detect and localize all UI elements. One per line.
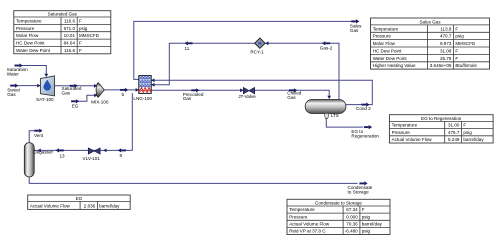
wire Precooled Gas (LNG-100 to JT-Valve): [151, 89, 243, 91]
svg-text:Gas: Gas: [7, 92, 16, 97]
svg-text:LNG-100: LNG-100: [133, 96, 152, 101]
arrow Gas-2: [322, 41, 330, 45]
svg-text:F: F: [455, 49, 458, 54]
svg-text:barrel/day: barrel/day: [99, 204, 120, 209]
svg-text:25.79: 25.79: [440, 56, 452, 61]
svg-text:MMSCFD: MMSCFD: [79, 33, 100, 38]
label LNG-100: [133, 96, 152, 101]
svg-text:2.036: 2.036: [84, 204, 96, 209]
valve VLV-101: [88, 148, 100, 154]
label VLV-101: [83, 156, 101, 161]
svg-text:psig: psig: [455, 34, 464, 39]
svg-text:HC Dew Point: HC Dew Point: [16, 41, 45, 46]
svg-text:9.973: 9.973: [440, 41, 452, 46]
svg-text:5.249: 5.249: [448, 137, 460, 142]
svg-text:116.6: 116.6: [64, 48, 76, 53]
table Condensate to Storage: [287, 199, 390, 234]
label Condensate to Storage: [348, 185, 373, 194]
wire Cond 2 (LTS liquid to LNG-100): [151, 80, 372, 104]
svg-text:RCY-1: RCY-1: [250, 50, 264, 55]
wire Saturated Gas (SAT-100 to MIX-100): [54, 85, 97, 87]
svg-text:MIX-100: MIX-100: [91, 99, 109, 104]
svg-text:8: 8: [120, 153, 123, 158]
label Saturated Gas: [62, 86, 82, 95]
arrow Condensate to Storage: [359, 181, 367, 185]
vessel Degasser: [24, 143, 34, 177]
label Saturation Water: [7, 67, 28, 76]
svg-text:Actual Volume Flow: Actual Volume Flow: [30, 204, 71, 209]
wire EG feed to MIX-100: [78, 95, 97, 101]
svg-text:-6.480: -6.480: [345, 229, 358, 234]
svg-text:84.64: 84.64: [64, 41, 76, 46]
label Gas-2: [320, 45, 333, 50]
arrow stream 11: [184, 41, 192, 45]
svg-text:MMSCFD: MMSCFD: [455, 41, 476, 46]
svg-text:psig: psig: [463, 130, 472, 135]
wire Vent (Degasser top): [29, 131, 37, 143]
svg-text:to Storage: to Storage: [348, 190, 370, 195]
svg-text:Gas: Gas: [287, 95, 296, 100]
label Precooled Gas: [183, 92, 204, 101]
arrow Precooled Gas: [191, 88, 199, 92]
arrow stream 5: [120, 88, 128, 92]
svg-text:31.00: 31.00: [448, 123, 460, 128]
separator LTS: [305, 100, 346, 119]
arrow Vent: [34, 129, 42, 133]
svg-text:LTS: LTS: [331, 113, 339, 118]
table EG to Regeneration: [389, 115, 493, 143]
svg-text:Btu/lbmole: Btu/lbmole: [455, 63, 477, 68]
svg-text:11: 11: [185, 46, 190, 51]
label stream 8: [120, 153, 123, 158]
label EG to Regeneration: [351, 129, 379, 138]
wire Sales Gas (LNG-100 top-left outlet to top-right): [134, 21, 352, 79]
table Saturated Gas: [14, 11, 111, 54]
svg-text:70.36: 70.36: [346, 222, 358, 227]
svg-text:Saturated Gas: Saturated Gas: [48, 11, 78, 16]
label JT-Valve: [238, 94, 256, 99]
arrow Saturated Gas: [70, 84, 78, 88]
svg-text:psig: psig: [362, 214, 371, 219]
svg-text:671.0: 671.0: [64, 26, 76, 31]
svg-text:Molar Flow: Molar Flow: [16, 33, 39, 38]
svg-text:Temperature: Temperature: [16, 19, 42, 24]
svg-text:Water Dew Point: Water Dew Point: [16, 48, 51, 53]
valve JT-Valve: [243, 88, 254, 94]
arrow EG to Regeneration: [364, 125, 372, 129]
label stream 13: [60, 153, 66, 158]
svg-text:Temperature: Temperature: [373, 26, 399, 31]
wire Saturation Water feed: [22, 66, 47, 75]
arrow Sales Gas: [351, 19, 359, 23]
label RCY-1: [250, 50, 264, 55]
svg-text:470.7: 470.7: [440, 34, 452, 39]
svg-text:Higher Heating Value: Higher Heating Value: [373, 63, 416, 68]
svg-text:Sales Gas: Sales Gas: [420, 19, 442, 24]
svg-text:F: F: [362, 207, 365, 212]
label Sales Gas: [350, 24, 362, 33]
svg-text:Pressure: Pressure: [373, 34, 392, 39]
svg-text:psig: psig: [362, 229, 371, 234]
svg-text:Temperature: Temperature: [392, 123, 418, 128]
svg-text:3.646e+05: 3.646e+05: [430, 63, 452, 68]
svg-text:Gas-2: Gas-2: [320, 45, 333, 50]
saturator SAT-100: [40, 76, 54, 96]
label stream 11: [185, 46, 190, 51]
svg-text:Pressure: Pressure: [392, 130, 411, 135]
label Cond 2: [356, 106, 371, 111]
svg-text:Gas: Gas: [183, 96, 192, 101]
arrow Saturation Water feed: [15, 63, 23, 67]
arrow EG feed: [71, 99, 79, 103]
svg-text:5: 5: [122, 92, 125, 97]
svg-text:SAT-100: SAT-100: [36, 97, 54, 102]
label Degasser: [33, 149, 53, 154]
svg-text:116.6: 116.6: [64, 19, 76, 24]
svg-text:Regeneration: Regeneration: [351, 134, 379, 139]
svg-text:F: F: [455, 26, 458, 31]
svg-text:barrel/day: barrel/day: [362, 222, 383, 227]
label MIX-100: [91, 99, 109, 104]
wire Condensate to Storage (Degasser bottom): [29, 177, 357, 184]
label LTS: [331, 113, 339, 118]
svg-text:Water Dew Point: Water Dew Point: [373, 56, 408, 61]
svg-text:VLV-101: VLV-101: [83, 156, 101, 161]
table EG: [28, 195, 131, 209]
wire Gas-2 (LTS vapour to RCY-1): [265, 43, 339, 99]
wire EG to Regeneration (LTS boot): [326, 118, 363, 127]
svg-text:113.8: 113.8: [440, 26, 452, 31]
svg-text:EG: EG: [76, 196, 83, 201]
svg-text:R: R: [258, 41, 262, 47]
wire stream 11 (RCY-1 to LNG-100 cold inlet): [151, 43, 255, 85]
svg-text:barrel/day: barrel/day: [463, 137, 484, 142]
svg-text:Actual Volume Flow: Actual Volume Flow: [392, 137, 433, 142]
svg-text:67.34: 67.34: [346, 207, 358, 212]
svg-text:31.08: 31.08: [440, 49, 452, 54]
arrow stream 8: [118, 148, 126, 152]
label SAT-100: [36, 97, 54, 102]
svg-text:Molar Flow: Molar Flow: [373, 41, 396, 46]
svg-text:Pressure: Pressure: [289, 214, 308, 219]
svg-text:Vent: Vent: [34, 133, 44, 138]
mixer MIX-100: [96, 83, 104, 97]
wire stream 8/13 (LNG-100 bottom outlet to Degasser): [34, 93, 132, 150]
table Sales Gas: [371, 18, 490, 69]
wire Chilled Gas (JT-Valve to LTS): [255, 90, 329, 97]
svg-text:Gas: Gas: [62, 90, 71, 95]
svg-text:F: F: [79, 19, 82, 24]
wire Sweet Gas feed: [18, 85, 41, 87]
svg-text:Reid VP at 37.8 C: Reid VP at 37.8 C: [289, 229, 326, 234]
svg-text:EG to Regeneration: EG to Regeneration: [421, 116, 462, 121]
svg-text:psig: psig: [79, 26, 88, 31]
svg-text:EG: EG: [72, 103, 79, 108]
svg-text:HC Dew Point: HC Dew Point: [373, 49, 402, 54]
arrow Cond 2: [361, 103, 369, 107]
svg-text:0.000: 0.000: [346, 214, 358, 219]
svg-text:F: F: [79, 41, 82, 46]
heat-exchanger LNG-100: [139, 76, 151, 94]
label Chilled Gas: [287, 91, 301, 100]
svg-text:Pressure: Pressure: [16, 26, 35, 31]
svg-text:Temperature: Temperature: [289, 207, 315, 212]
svg-text:JT-Valve: JT-Valve: [238, 94, 256, 99]
recycle RCY-1: [255, 38, 265, 48]
svg-text:13: 13: [60, 153, 66, 158]
wire stream 5 (MIX-100 to LNG-100): [104, 89, 139, 91]
svg-text:Condensate to Storage: Condensate to Storage: [315, 200, 362, 205]
label Sweet Gas: [7, 88, 20, 97]
svg-text:F: F: [455, 56, 458, 61]
arrow stream 13: [56, 148, 64, 152]
svg-text:F: F: [463, 123, 466, 128]
svg-text:Degasser: Degasser: [33, 149, 53, 154]
svg-text:Actual Volume Flow: Actual Volume Flow: [289, 222, 330, 227]
label Vent: [34, 133, 44, 138]
svg-text:Water: Water: [7, 72, 20, 77]
svg-text:10.01: 10.01: [64, 33, 76, 38]
svg-text:475.7: 475.7: [448, 130, 460, 135]
arrow Chilled Gas: [289, 88, 297, 92]
svg-text:Cond 2: Cond 2: [356, 106, 371, 111]
svg-text:F: F: [79, 48, 82, 53]
arrow Sweet Gas feed: [10, 84, 18, 88]
label EG feed: [72, 103, 79, 108]
svg-text:Gas: Gas: [350, 28, 359, 33]
label stream 5: [122, 92, 125, 97]
